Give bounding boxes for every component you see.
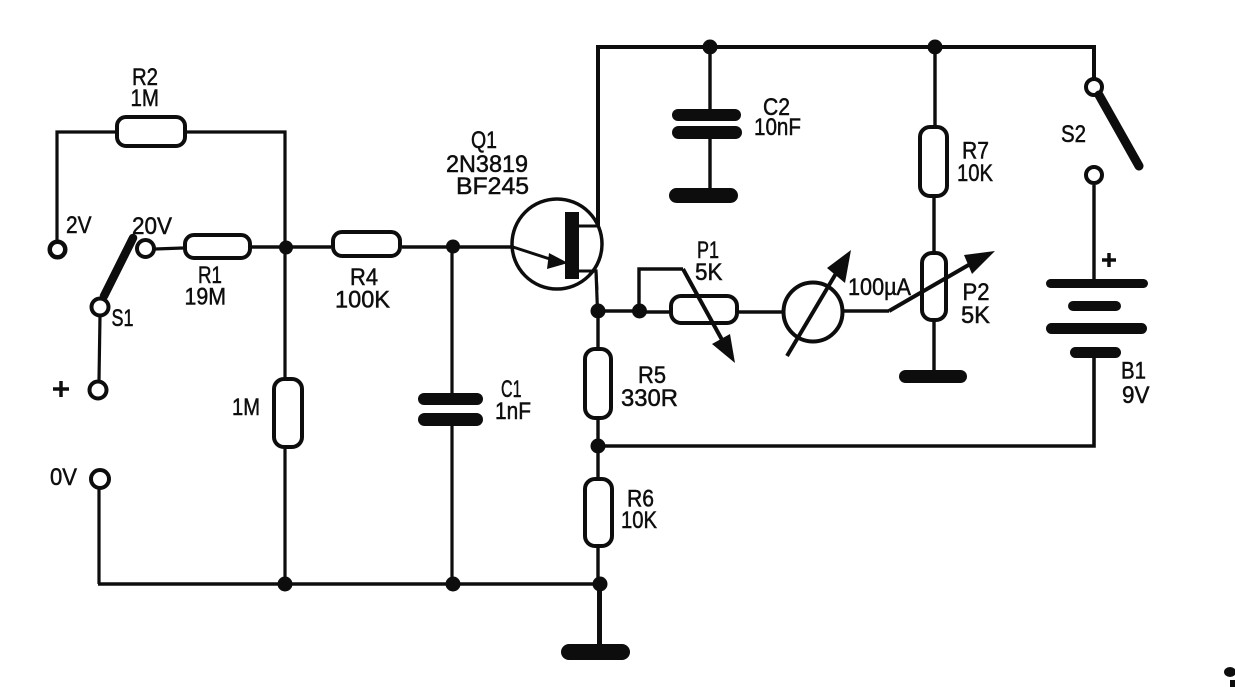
svg-text:10K: 10K bbox=[621, 507, 658, 534]
svg-text:5K: 5K bbox=[695, 259, 723, 286]
wire R6 bottom to bottom rail bbox=[596, 548, 599, 584]
resistor R5 330R bbox=[585, 349, 678, 418]
node junction top rail C2 bbox=[703, 40, 718, 55]
svg-text:5K: 5K bbox=[961, 302, 991, 329]
switch S1 with 20V terminal bbox=[92, 213, 173, 332]
svg-text:20V: 20V bbox=[132, 213, 173, 240]
transistor Q1 JFET 2N3819 / BF245 bbox=[446, 127, 602, 290]
svg-text:10nF: 10nF bbox=[754, 114, 801, 141]
wire ground stem bottom bbox=[597, 584, 602, 648]
wire Q1 source to R5 top bbox=[596, 311, 599, 347]
wire top rail node to R7 top bbox=[933, 47, 936, 125]
wire R2 right to column x285 bbox=[186, 132, 285, 377]
svg-text:S2: S2 bbox=[1061, 121, 1086, 148]
svg-text:100µA: 100µA bbox=[848, 274, 912, 301]
svg-text:330R: 330R bbox=[621, 385, 678, 412]
wire 0V terminal to bottom rail bbox=[97, 488, 100, 584]
wire 2V terminal to R2 left bbox=[57, 132, 116, 240]
node junction bottom rail ground bbox=[593, 577, 608, 592]
wire P1 wiper bend bbox=[639, 269, 683, 311]
ground under P2 bbox=[906, 370, 961, 383]
svg-text:Q1: Q1 bbox=[471, 127, 497, 154]
wire mid rail node to R6 top bbox=[596, 446, 599, 477]
wire R7 bottom to P2 top bbox=[932, 198, 935, 251]
wire R5 bottom to mid rail bbox=[596, 420, 599, 446]
battery B1 9V bbox=[1051, 253, 1151, 409]
svg-text:BF245: BF245 bbox=[456, 173, 529, 200]
node junction P1 branch bbox=[632, 304, 647, 319]
terminal plus input bbox=[53, 381, 107, 399]
wire 1M bottom to bottom rail bbox=[283, 449, 286, 584]
potentiometer P1 5K bbox=[671, 237, 737, 363]
node junction Q1 source bbox=[591, 304, 606, 319]
wire mid rail to battery minus bbox=[598, 356, 1094, 446]
wire R1 right to R4 left bbox=[252, 245, 331, 248]
svg-text:100K: 100K bbox=[335, 287, 391, 314]
wire C2 top stem bbox=[708, 47, 711, 110]
svg-text:1M: 1M bbox=[131, 85, 160, 112]
wire R4 right to Q1 gate bbox=[402, 245, 513, 248]
svg-text:B1: B1 bbox=[1121, 358, 1146, 385]
svg-text:0V: 0V bbox=[50, 464, 78, 491]
wire P1 right lead to meter bbox=[739, 310, 783, 313]
svg-text:10K: 10K bbox=[957, 160, 994, 187]
capacitor C2 10nF bbox=[678, 94, 801, 141]
wire C2 bottom stem to ground bbox=[708, 138, 711, 191]
node junction top rail R7 bbox=[928, 40, 943, 55]
wire source bar link bbox=[578, 271, 598, 311]
potentiometer P2 5K bbox=[889, 251, 995, 329]
node junction mid rail bbox=[591, 439, 606, 454]
wire C1 bottom to bottom rail bbox=[450, 425, 453, 584]
node junction bottom rail C1 bbox=[446, 577, 461, 592]
wire bottom rail bbox=[98, 582, 600, 586]
resistor 1M vertical bbox=[232, 379, 302, 447]
ground under C2 bbox=[677, 188, 731, 203]
wire top rail bbox=[596, 47, 1094, 78]
wire 20V terminal to R1 bbox=[155, 248, 183, 249]
resistor R1 19M bbox=[185, 235, 251, 311]
wire drain bar link bbox=[578, 224, 598, 227]
switch S2 bbox=[1061, 79, 1139, 183]
wire S1 pole to plus terminal bbox=[99, 316, 100, 380]
wire P1 left lead bbox=[639, 310, 669, 313]
resistor R6 10K bbox=[585, 479, 658, 546]
resistor R2 1M bbox=[117, 64, 185, 146]
svg-text:2V: 2V bbox=[66, 212, 92, 239]
wire source node to P1 branch node bbox=[598, 309, 639, 312]
svg-text:1nF: 1nF bbox=[495, 398, 531, 425]
ground bottom center bbox=[569, 644, 622, 660]
artifact mark bottom right bbox=[1224, 667, 1235, 687]
wire meter to P2 wiper bend bbox=[844, 309, 889, 312]
node junction gate / R2 column bbox=[279, 241, 293, 255]
resistor R4 100K bbox=[333, 232, 400, 314]
terminal 2V bbox=[50, 212, 92, 257]
terminal 0V bbox=[50, 464, 109, 491]
capacitor C1 1nF bbox=[424, 376, 531, 425]
wire gate node to C1 top bbox=[450, 247, 453, 394]
node junction bottom rail x285 bbox=[278, 577, 293, 592]
meter M1 100uA bbox=[784, 250, 912, 356]
node junction gate / C1 column bbox=[446, 240, 460, 254]
wire S2 lower contact to battery plus bbox=[1092, 185, 1095, 281]
wire P2 bottom to ground bbox=[932, 322, 935, 372]
svg-text:1M: 1M bbox=[232, 394, 260, 421]
svg-text:19M: 19M bbox=[185, 284, 227, 311]
svg-text:9V: 9V bbox=[1122, 382, 1150, 409]
resistor R7 10K bbox=[920, 127, 994, 196]
svg-text:S1: S1 bbox=[112, 305, 134, 332]
wire Q1 drain to top rail bbox=[596, 47, 600, 226]
